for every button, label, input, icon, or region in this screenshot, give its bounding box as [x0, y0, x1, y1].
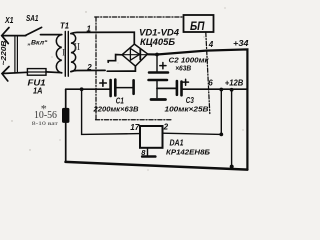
transformer T1 primary winding I — [56, 35, 61, 73]
svg-text:6: 6 — [208, 79, 213, 88]
chassis bar under C2 — [151, 98, 166, 101]
capacitor C2 — [149, 55, 169, 98]
wire staircase to bridge left corner — [108, 55, 122, 63]
svg-text:1А: 1А — [33, 87, 43, 96]
wire secondary pin 1 — [71, 32, 134, 44]
wire minus rail left — [66, 88, 110, 90]
terminal X1 bottom arrow — [2, 67, 9, 82]
dashed enclosure border bottom — [96, 119, 173, 121]
dashed enclosure border left — [95, 17, 97, 120]
wire DA1 pin2 — [163, 133, 222, 134]
chassis bar DA1 pin 8 — [142, 155, 155, 158]
svg-text:8-10 ват: 8-10 ват — [32, 121, 59, 127]
svg-text:DA1: DA1 — [170, 139, 184, 148]
svg-text:100мк×25В: 100мк×25В — [165, 104, 210, 113]
wire top rail plus — [148, 49, 248, 169]
svg-text:4: 4 — [208, 40, 214, 49]
dashed enclosure border right — [206, 33, 210, 114]
svg-text:+34: +34 — [233, 39, 249, 48]
node junction pin2 wire — [219, 133, 223, 137]
svg-text:Т1: Т1 — [60, 22, 70, 31]
svg-text:2: 2 — [86, 63, 92, 72]
svg-text:10-56: 10-56 — [34, 110, 57, 121]
plus mark C2 — [160, 63, 166, 69]
diode bridge VD1-VD4 diamond — [122, 44, 148, 66]
capacitor C3 — [177, 81, 182, 95]
svg-text:КЦ405Б: КЦ405Б — [140, 37, 176, 47]
diode symbol inside bridge — [124, 54, 147, 56]
transformer T1 secondary winding II — [71, 34, 76, 72]
wire drop +12V to bottom rail — [231, 90, 233, 167]
component black body on left vertical — [62, 108, 69, 123]
plus mark C1 — [100, 80, 107, 86]
block label box BP — [184, 15, 214, 32]
plus mark C3 — [183, 79, 189, 85]
wire bottom rail — [66, 162, 248, 170]
transformer T1 core — [65, 32, 68, 77]
wire to DA1 pin 17 — [82, 89, 140, 134]
svg-text:17: 17 — [130, 123, 140, 132]
regulator DA1 box — [140, 126, 163, 148]
node junction riser pin2 top — [219, 88, 223, 92]
svg-text:„Вкл“: „Вкл“ — [26, 40, 48, 47]
svg-text:2200мк×63В: 2200мк×63В — [92, 105, 139, 114]
wire riser DA1 pin2 to +12V — [220, 90, 222, 135]
svg-text:2: 2 — [163, 123, 169, 132]
wire bridge bottom corner — [107, 66, 135, 71]
node junction on minus wire — [80, 87, 84, 91]
connector X1 double bars — [15, 36, 18, 73]
svg-text:×63В: ×63В — [175, 63, 192, 72]
wire mains top — [3, 35, 26, 37]
svg-text:КР142ЕН8Б: КР142ЕН8Б — [166, 147, 211, 156]
wire DA1 pin 8 down — [147, 148, 149, 156]
svg-text:II: II — [74, 42, 81, 53]
switch SA1 blade — [26, 27, 42, 35]
fuse FU1 — [27, 69, 46, 76]
svg-text:БП: БП — [190, 19, 205, 33]
svg-text:1: 1 — [87, 24, 92, 33]
svg-text:+12В: +12В — [225, 78, 244, 87]
wire left vertical to bottom rail — [65, 89, 67, 162]
node junction C2 on rail — [155, 53, 159, 57]
svg-text:X1: X1 — [4, 16, 14, 25]
terminal X1 top arrow — [2, 28, 9, 44]
capacitor C1 — [111, 80, 133, 97]
wire C3 left — [157, 87, 176, 89]
svg-text:~220В: ~220В — [1, 41, 8, 66]
svg-text:I: I — [62, 49, 65, 59]
wire +12V rail — [182, 88, 248, 90]
node junction drop bottom on rail — [230, 165, 234, 169]
svg-text:SA1: SA1 — [26, 14, 39, 23]
dashed enclosure border top — [95, 16, 184, 18]
chassis bar right of C1 — [132, 80, 135, 94]
wire FU1 to T1 primary bottom — [46, 71, 62, 74]
wire SA1 to T1 primary — [41, 34, 62, 36]
node junction drop top — [230, 88, 234, 92]
wire mains bottom — [2, 72, 27, 73]
wire secondary pin 2 — [71, 70, 105, 71]
